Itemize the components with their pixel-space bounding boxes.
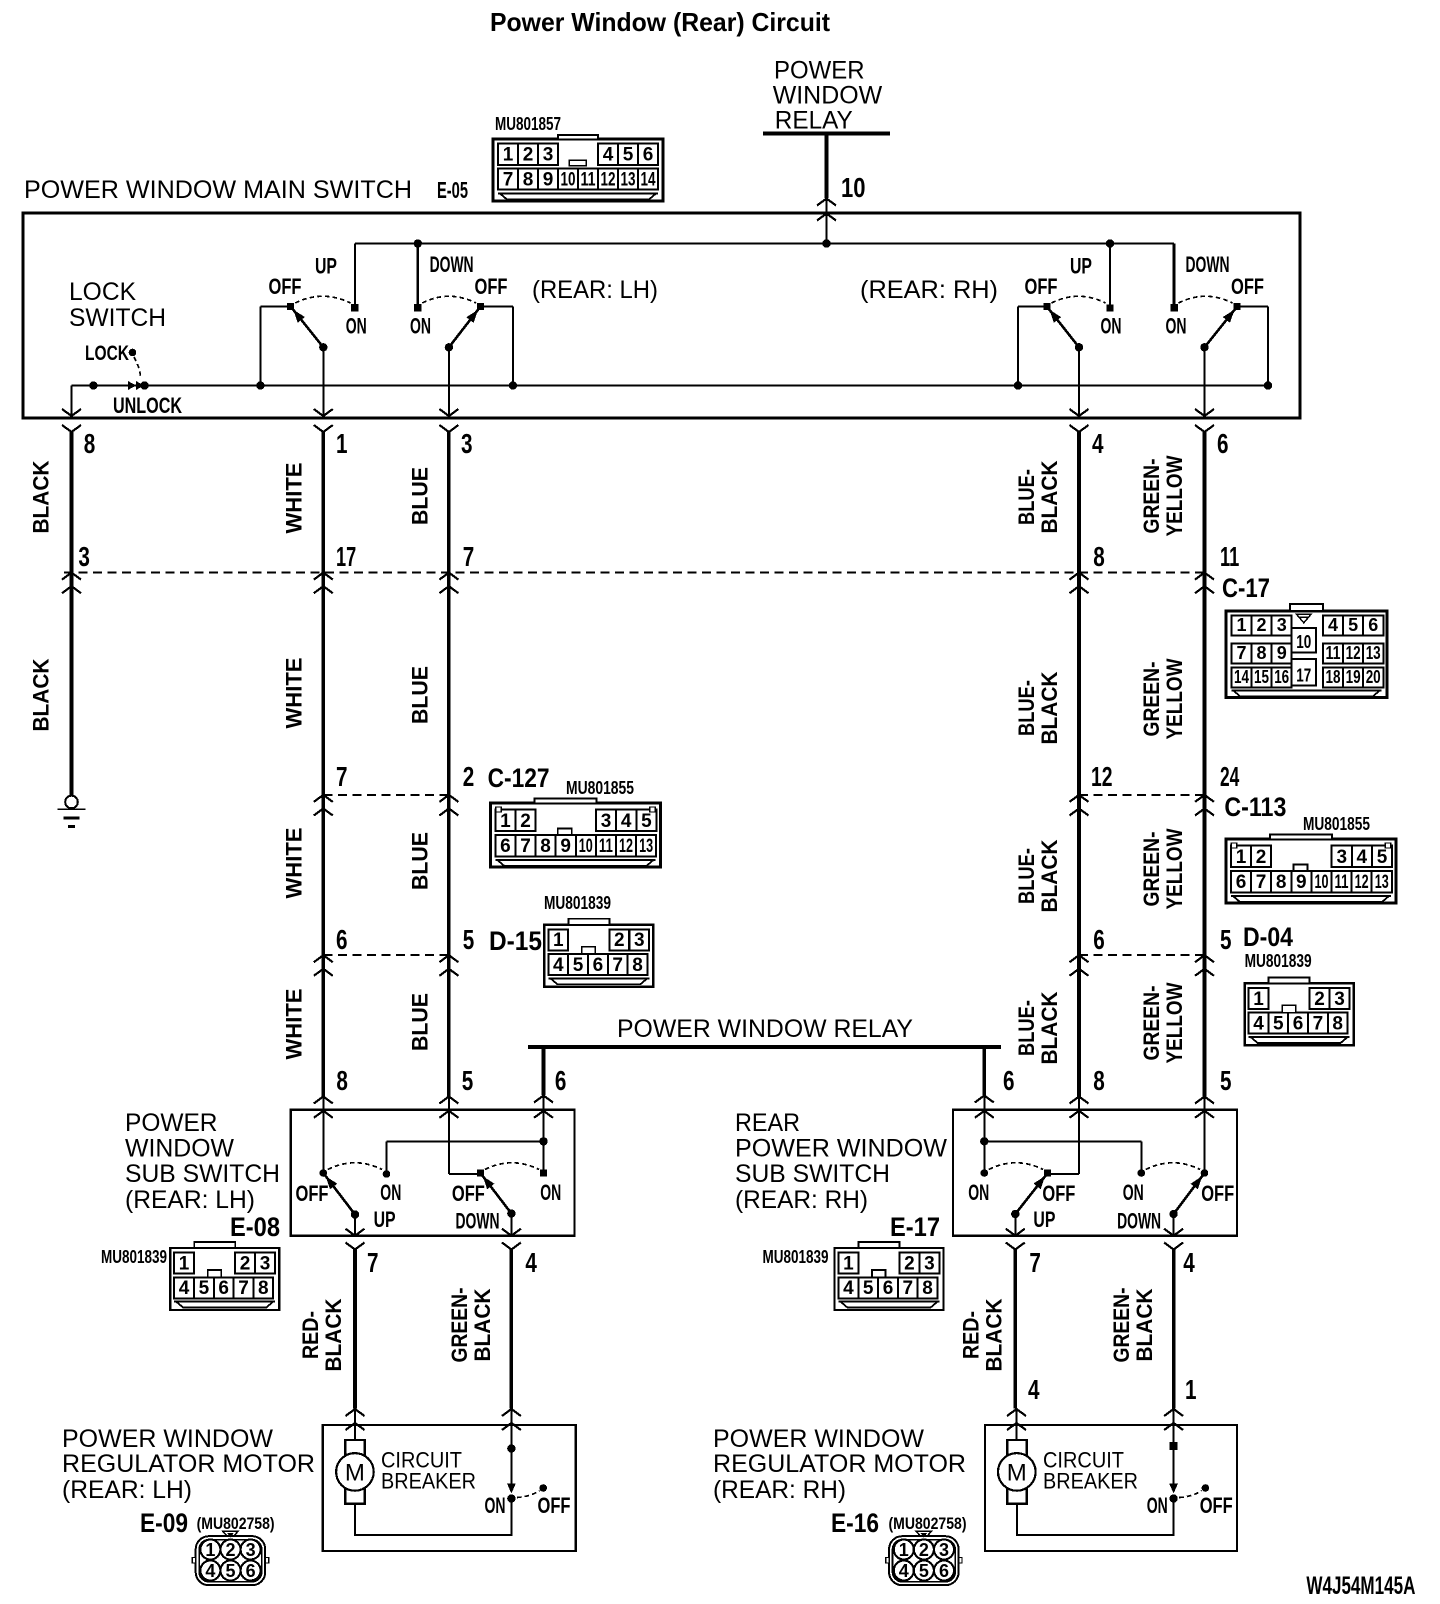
svg-text:YELLOW: YELLOW [1162,828,1187,909]
svg-text:6: 6 [246,1561,256,1581]
svg-text:5: 5 [1220,1065,1232,1096]
svg-text:BLUE-: BLUE- [1014,469,1039,525]
svg-text:C-17: C-17 [1222,573,1270,603]
svg-text:Power Window (Rear) Circuit: Power Window (Rear) Circuit [490,7,830,37]
svg-text:4: 4 [205,1561,215,1581]
svg-text:4: 4 [1028,1374,1040,1405]
svg-text:11: 11 [1335,872,1349,893]
svg-text:(MU802758): (MU802758) [889,1514,967,1533]
svg-text:OFF: OFF [1025,274,1058,299]
switch LH DOWN [414,239,422,247]
svg-text:(REAR: RH): (REAR: RH) [713,1476,846,1504]
connector boundary C-17 dashed line [64,572,1205,574]
svg-text:BLACK: BLACK [29,460,54,533]
switch LH UP [354,244,356,308]
svg-text:13: 13 [639,836,653,857]
svg-text:1: 1 [500,811,511,832]
svg-text:10: 10 [1296,632,1311,652]
wire BLUE-BLACK pin4 [1077,432,1081,1097]
svg-text:8: 8 [922,1278,933,1299]
svg-text:7: 7 [1029,1247,1041,1278]
svg-text:1: 1 [899,1540,909,1560]
svg-text:17: 17 [1296,666,1311,686]
svg-text:BLACK: BLACK [982,1298,1007,1371]
svg-text:MU801839: MU801839 [101,1247,167,1267]
svg-text:POWER: POWER [125,1109,218,1137]
RH motor entry chevrons [1007,1409,1026,1416]
power window sub switch box (REAR LH) E-08 [291,1110,575,1236]
svg-text:MU801839: MU801839 [763,1247,829,1267]
svg-text:BLACK: BLACK [321,1298,346,1371]
svg-text:MU801855: MU801855 [566,778,634,798]
svg-text:BREAKER: BREAKER [1043,1469,1138,1494]
svg-text:3: 3 [1337,847,1348,868]
svg-text:5: 5 [863,1278,874,1299]
LH motor entry chevrons [346,1409,365,1416]
svg-text:2: 2 [1314,989,1325,1010]
svg-text:6: 6 [1093,924,1105,955]
svg-text:8: 8 [84,428,96,459]
svg-text:2: 2 [904,1254,915,1275]
svg-text:8: 8 [632,955,643,976]
wire GREEN-BLACK LH [510,1250,514,1409]
svg-text:5: 5 [919,1561,929,1581]
svg-text:5: 5 [641,811,652,832]
svg-text:1: 1 [503,145,514,166]
svg-text:7: 7 [463,541,475,572]
svg-text:2: 2 [463,761,475,792]
svg-text:13: 13 [621,169,636,190]
svg-text:POWER WINDOW: POWER WINDOW [62,1425,273,1453]
svg-text:E-05: E-05 [437,177,468,203]
wire BLUE pin3 [447,432,451,1097]
svg-text:20: 20 [1366,667,1381,687]
connector boundary C-127 dashed line [323,794,449,796]
svg-text:1: 1 [205,1540,215,1560]
svg-text:BLUE-: BLUE- [1014,848,1039,904]
svg-text:12: 12 [1355,872,1369,893]
svg-text:OFF: OFF [538,1493,571,1518]
wire lock bus [72,385,1269,387]
svg-text:REGULATOR MOTOR: REGULATOR MOTOR [713,1450,966,1478]
svg-text:BLACK: BLACK [470,1288,495,1361]
svg-text:7: 7 [336,761,348,792]
svg-text:OFF: OFF [296,1181,329,1206]
svg-text:6: 6 [1368,615,1378,635]
svg-text:GREEN-: GREEN- [1109,1288,1134,1363]
svg-text:DOWN: DOWN [1186,252,1230,277]
svg-text:3: 3 [601,811,612,832]
svg-text:6: 6 [1217,428,1229,459]
svg-text:11: 11 [1220,541,1239,572]
svg-text:D-04: D-04 [1243,922,1293,952]
svg-text:7: 7 [520,836,531,857]
svg-text:WHITE: WHITE [282,989,307,1060]
svg-text:10: 10 [1315,872,1329,893]
svg-text:DOWN: DOWN [430,252,474,277]
svg-text:7: 7 [903,1278,914,1299]
svg-text:5: 5 [1220,924,1232,955]
svg-text:BLUE: BLUE [408,467,433,525]
svg-text:ON: ON [1147,1493,1168,1518]
svg-text:UP: UP [315,254,337,279]
svg-text:10: 10 [579,836,593,857]
svg-text:C-113: C-113 [1224,792,1286,822]
svg-text:4: 4 [603,145,614,166]
svg-text:3: 3 [260,1254,271,1275]
svg-text:6: 6 [1003,1065,1015,1096]
svg-text:8: 8 [1276,872,1287,893]
svg-text:MU801857: MU801857 [495,114,561,134]
svg-text:6: 6 [555,1065,567,1096]
svg-text:4: 4 [179,1278,190,1299]
svg-text:GREEN-: GREEN- [1139,986,1164,1061]
svg-text:WINDOW: WINDOW [773,82,883,110]
svg-text:15: 15 [1254,667,1269,687]
svg-text:5: 5 [462,1065,474,1096]
svg-text:11: 11 [599,836,613,857]
svg-text:BLUE: BLUE [408,666,433,724]
svg-text:GREEN-: GREEN- [447,1288,472,1363]
svg-text:6: 6 [336,924,348,955]
svg-text:5: 5 [1377,847,1388,868]
svg-text:18: 18 [1326,667,1341,687]
svg-text:POWER WINDOW: POWER WINDOW [735,1134,947,1162]
svg-text:OFF: OFF [475,274,508,299]
svg-text:2: 2 [1256,847,1267,868]
svg-text:DOWN: DOWN [1117,1209,1161,1234]
svg-text:BREAKER: BREAKER [381,1469,476,1494]
wire relay to main switch pin 10 [825,135,829,198]
svg-text:MU801839: MU801839 [1245,951,1312,971]
svg-text:6: 6 [593,955,604,976]
svg-text:2: 2 [614,930,625,951]
svg-text:OFF: OFF [269,274,302,299]
svg-text:OFF: OFF [1231,274,1264,299]
connector boundary D-04 dashed line [1079,954,1205,956]
wire RED-BLACK LH [353,1250,357,1409]
svg-text:9: 9 [1296,872,1307,893]
svg-text:6: 6 [643,145,654,166]
svg-text:UNLOCK: UNLOCK [113,393,182,418]
ground [65,796,78,809]
svg-text:3: 3 [634,930,645,951]
svg-text:BLACK: BLACK [1037,460,1062,533]
svg-text:2: 2 [240,1254,251,1275]
svg-text:7: 7 [1236,643,1246,663]
svg-text:8: 8 [523,169,534,190]
svg-text:9: 9 [543,169,554,190]
svg-text:WHITE: WHITE [282,658,307,729]
svg-text:6: 6 [1293,1014,1304,1035]
svg-text:1: 1 [1185,1374,1197,1405]
svg-text:8: 8 [1256,643,1266,663]
relay wire to LH sub switch [542,1047,546,1095]
svg-text:SUB SWITCH: SUB SWITCH [125,1160,280,1188]
svg-text:LOCK: LOCK [85,342,129,365]
svg-text:5: 5 [1273,1014,1284,1035]
svg-text:(REAR: LH): (REAR: LH) [125,1186,255,1214]
switch RH sub UP [983,1141,985,1173]
svg-text:12: 12 [601,169,616,190]
circuit breaker switch LH [507,1444,515,1452]
RH sub outputs [1006,1229,1025,1236]
svg-text:GREEN-: GREEN- [1139,459,1164,534]
svg-text:(MU802758): (MU802758) [197,1514,275,1533]
svg-text:3: 3 [246,1540,256,1560]
svg-text:8: 8 [336,1065,348,1096]
svg-text:D-15: D-15 [489,926,542,956]
svg-text:YELLOW: YELLOW [1162,455,1187,536]
svg-text:YELLOW: YELLOW [1162,658,1187,739]
svg-text:1: 1 [1236,615,1246,635]
svg-text:UP: UP [1033,1207,1055,1232]
svg-text:RED-: RED- [959,1311,984,1359]
svg-text:16: 16 [1274,667,1289,687]
svg-text:2: 2 [523,145,534,166]
svg-text:7: 7 [238,1278,249,1299]
wire BLACK pin8 to ground [70,432,74,796]
svg-text:REGULATOR MOTOR: REGULATOR MOTOR [62,1450,315,1478]
svg-text:UP: UP [374,1207,396,1232]
svg-text:1: 1 [336,428,348,459]
wire LH sub bus [387,1140,544,1142]
svg-text:6: 6 [883,1278,894,1299]
svg-text:GREEN-: GREEN- [1139,832,1164,907]
svg-text:SUB SWITCH: SUB SWITCH [735,1160,890,1188]
svg-text:4: 4 [1092,428,1104,459]
svg-text:7: 7 [1313,1014,1324,1035]
switch LH sub DOWN [448,1110,450,1174]
power window main switch box E-05 [23,213,1300,418]
svg-text:1: 1 [843,1254,854,1275]
svg-text:ON: ON [1123,1180,1144,1205]
svg-text:POWER: POWER [774,56,865,84]
relay wire to RH sub switch [982,1047,986,1095]
svg-text:1: 1 [1253,989,1264,1010]
circuit breaker switch RH [1170,1442,1178,1450]
svg-text:3: 3 [543,145,554,166]
svg-text:13: 13 [1375,872,1389,893]
svg-text:BLUE-: BLUE- [1014,1000,1039,1056]
svg-text:19: 19 [1346,667,1361,687]
svg-text:4: 4 [525,1247,537,1278]
svg-text:ON: ON [968,1180,989,1205]
svg-text:6: 6 [939,1561,949,1581]
switch RH DOWN [1173,244,1176,308]
svg-text:RELAY: RELAY [775,107,853,135]
svg-text:ON: ON [410,314,431,339]
svg-text:WHITE: WHITE [282,463,307,534]
svg-text:C-127: C-127 [488,763,550,793]
svg-text:7: 7 [612,955,623,976]
svg-text:9: 9 [560,836,571,857]
svg-text:GREEN-: GREEN- [1139,662,1164,737]
wire GREEN-BLACK RH [1172,1250,1176,1409]
svg-text:MU801855: MU801855 [1303,814,1370,834]
svg-text:12: 12 [619,836,633,857]
svg-text:WINDOW: WINDOW [125,1134,234,1162]
svg-text:ON: ON [1166,314,1187,339]
svg-text:8: 8 [1093,541,1105,572]
LH sub outputs [346,1229,365,1236]
svg-text:3: 3 [939,1540,949,1560]
svg-text:M: M [345,1460,365,1487]
svg-text:3: 3 [1334,989,1345,1010]
svg-text:LOCK: LOCK [69,278,136,306]
svg-text:E-08: E-08 [230,1212,280,1242]
svg-text:5: 5 [199,1278,210,1299]
svg-text:11: 11 [581,169,596,190]
svg-text:7: 7 [1256,872,1267,893]
svg-text:OFF: OFF [1042,1181,1075,1206]
svg-text:4: 4 [1253,1014,1264,1035]
svg-text:UP: UP [1070,254,1092,279]
svg-text:RED-: RED- [298,1311,323,1359]
RH motor bottom wire [1017,1499,1174,1535]
svg-text:SWITCH: SWITCH [69,304,166,332]
svg-text:REAR: REAR [735,1109,800,1137]
svg-text:17: 17 [336,541,356,572]
lock switch contact [129,349,137,357]
svg-text:9: 9 [1277,643,1287,663]
svg-text:7: 7 [503,169,514,190]
connector boundary D-15 dashed line [323,954,449,956]
svg-text:4: 4 [1183,1247,1195,1278]
junction relay-bus [822,239,830,247]
svg-text:4: 4 [1328,615,1338,635]
svg-text:BLUE: BLUE [408,832,433,890]
svg-text:3: 3 [461,428,473,459]
svg-text:3: 3 [924,1254,935,1275]
svg-text:2: 2 [520,811,531,832]
svg-text:(REAR: RH): (REAR: RH) [860,276,998,304]
svg-text:24: 24 [1220,761,1240,792]
svg-text:M: M [1007,1460,1027,1487]
motor M LH [345,1440,364,1504]
svg-text:(REAR: LH): (REAR: LH) [532,276,658,304]
svg-text:E-09: E-09 [140,1508,188,1538]
svg-text:6: 6 [500,836,511,857]
svg-text:WHITE: WHITE [282,828,307,899]
svg-text:3: 3 [78,541,90,572]
svg-text:BLUE: BLUE [408,993,433,1051]
svg-text:10: 10 [561,169,576,190]
svg-text:OFF: OFF [452,1181,485,1206]
svg-text:BLACK: BLACK [1132,1288,1157,1361]
svg-text:ON: ON [346,314,367,339]
wire main bus [355,243,1174,245]
svg-text:11: 11 [1326,643,1341,663]
svg-text:YELLOW: YELLOW [1162,982,1187,1063]
svg-text:5: 5 [463,924,475,955]
main switch output chevrons [62,409,81,416]
switch RH sub DOWN [1138,1169,1146,1177]
svg-text:BLUE-: BLUE- [1014,680,1039,736]
svg-text:OFF: OFF [1201,1181,1234,1206]
svg-text:BLACK: BLACK [1037,671,1062,744]
svg-text:5: 5 [1348,615,1358,635]
svg-text:BLACK: BLACK [1037,991,1062,1064]
svg-text:3: 3 [1277,615,1287,635]
svg-text:ON: ON [1101,314,1122,339]
svg-text:8: 8 [1332,1014,1343,1035]
svg-text:OFF: OFF [1200,1493,1233,1518]
connector boundary C-113 dashed line [1079,794,1205,796]
svg-text:4: 4 [553,955,564,976]
svg-text:14: 14 [1234,667,1249,687]
switch LH sub UP [322,1110,324,1173]
svg-text:W4J54M145A: W4J54M145A [1306,1572,1415,1600]
svg-text:1: 1 [1236,847,1247,868]
svg-text:8: 8 [258,1278,269,1299]
connector C-17 20-pin [1226,611,1387,698]
svg-text:2: 2 [1256,615,1266,635]
svg-text:ON: ON [540,1180,561,1205]
junction dots on lock bus [89,381,97,389]
svg-text:6: 6 [218,1278,229,1299]
svg-text:BLACK: BLACK [29,658,54,731]
svg-text:2: 2 [919,1540,929,1560]
switch RH UP [1106,239,1114,247]
svg-text:2: 2 [225,1540,235,1560]
svg-text:E-16: E-16 [831,1508,879,1538]
motor M RH [1007,1440,1026,1504]
wire RED-BLACK RH [1013,1250,1017,1409]
svg-text:POWER WINDOW RELAY: POWER WINDOW RELAY [617,1015,913,1043]
svg-text:12: 12 [1091,761,1113,792]
wire RH sub bus [984,1140,1141,1142]
svg-text:5: 5 [623,145,634,166]
svg-text:1: 1 [179,1254,190,1275]
svg-text:4: 4 [1357,847,1368,868]
svg-text:MU801839: MU801839 [544,893,611,913]
svg-text:1: 1 [553,930,564,951]
svg-text:13: 13 [1366,643,1381,663]
svg-text:5: 5 [225,1561,235,1581]
svg-text:BLACK: BLACK [1037,839,1062,912]
svg-text:14: 14 [641,169,656,190]
svg-text:6: 6 [1236,872,1247,893]
svg-text:4: 4 [621,811,632,832]
svg-text:POWER WINDOW: POWER WINDOW [713,1425,924,1453]
svg-text:(REAR: RH): (REAR: RH) [735,1186,868,1214]
svg-text:5: 5 [573,955,584,976]
svg-text:4: 4 [843,1278,854,1299]
wire WHITE pin1 [321,432,325,1097]
svg-text:ON: ON [380,1180,401,1205]
svg-text:E-17: E-17 [890,1212,940,1242]
rear power window sub switch box (REAR RH) E-17 [953,1110,1237,1236]
svg-text:8: 8 [540,836,551,857]
svg-text:(REAR: LH): (REAR: LH) [62,1476,192,1504]
C-17 crossing chevrons [62,573,81,580]
LH motor bottom wire [355,1499,512,1535]
svg-text:ON: ON [485,1493,506,1518]
sub switch entry chevrons [314,1097,333,1104]
wire GREEN-YELLOW pin6 [1203,432,1207,1097]
svg-text:7: 7 [367,1247,379,1278]
svg-text:4: 4 [899,1561,909,1581]
svg-text:8: 8 [1093,1065,1105,1096]
svg-text:12: 12 [1346,643,1361,663]
svg-text:DOWN: DOWN [456,1209,500,1234]
svg-text:10: 10 [841,172,866,203]
svg-text:POWER WINDOW MAIN SWITCH: POWER WINDOW MAIN SWITCH [24,176,412,204]
